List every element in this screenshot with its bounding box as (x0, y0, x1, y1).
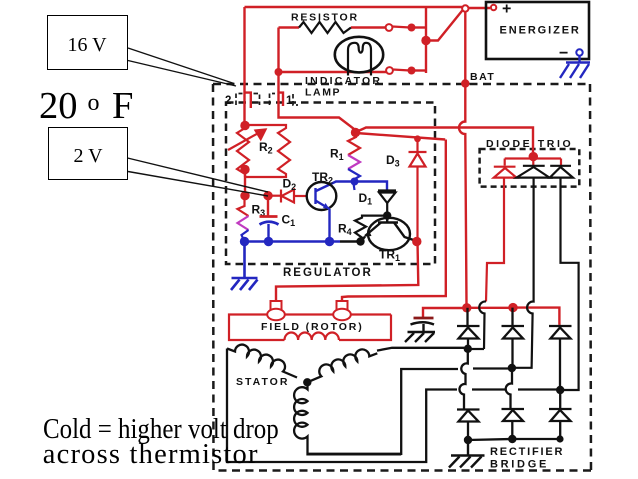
phase wire C (stator left down and to node C) (227, 349, 457, 463)
svg-text:C1: C1 (282, 213, 296, 229)
ground (rectifier bridge) (449, 440, 485, 468)
svg-text:ENERGIZER: ENERGIZER (500, 25, 581, 37)
junction dot bus BAT (462, 303, 471, 312)
resistor R3 (magenta) (238, 196, 249, 242)
junction dot R2 bottom (240, 165, 249, 174)
wire from switch circle to energizer + (469, 7, 491, 9)
phase wire B (stator bottom to node B) (308, 369, 459, 454)
bridge bottom bus (468, 439, 560, 440)
annotation cold text (43, 416, 279, 445)
svg-text:DIODE TRIO: DIODE TRIO (486, 138, 573, 150)
junction dot switch lower (408, 67, 416, 75)
noise capacitor bottom plate + ground (black) (405, 322, 435, 342)
lamp/resistor loop wires (red) (279, 7, 463, 73)
wire R2 bottom to D2 node (red) (244, 170, 246, 197)
wire BAT vertical (red, with hop) (459, 12, 467, 304)
trio left output (red then black, hops bus) (486, 178, 504, 302)
svg-text:D1: D1 (359, 191, 373, 207)
svg-text:+: + (502, 1, 511, 18)
wire left drop from top bus to R2 (red) (243, 7, 245, 125)
switch contact upper (open circle + blade) (386, 24, 393, 31)
node B dot (508, 364, 516, 372)
annotation box 16 V (47, 15, 128, 70)
right brush (red) (337, 301, 348, 311)
diode trio dashed box (480, 149, 580, 187)
junction dot TR2 emitter (325, 237, 334, 246)
svg-text:BRIDGE: BRIDGE (490, 459, 549, 471)
trio diode 3 (black) (550, 166, 573, 178)
svg-text:D2: D2 (283, 177, 297, 193)
junction dot C1 bottom (264, 237, 273, 246)
trio diode 2 (black) (517, 166, 550, 178)
trio right output (black) (560, 178, 578, 390)
transistor TR2 (307, 182, 337, 210)
terminal 2 red pin jog (245, 93, 251, 108)
node C dot (556, 386, 564, 394)
wire red horizontal to diode trio (356, 128, 533, 153)
energizer box (486, 2, 589, 59)
lamp filament (348, 43, 371, 76)
svg-text:R2: R2 (259, 140, 273, 156)
svg-text:R1: R1 (330, 147, 344, 163)
wire top bus (red) (245, 6, 463, 8)
junction dot diode trio (529, 152, 538, 161)
junction dot switch mid (421, 36, 430, 45)
rectifier red bus (467, 307, 514, 309)
junction dot BAT (461, 79, 469, 87)
annotation 20 deg F (39, 87, 133, 126)
wire R3 node down to ground (blue) (243, 242, 246, 278)
bottom bus dots (464, 436, 472, 444)
resistor (ballast) zigzag black (299, 22, 351, 33)
diode trio wiring (red) (505, 157, 561, 166)
regulator dashed box (226, 103, 435, 265)
diode D3 (red) (409, 139, 427, 242)
junction dot D3 top (414, 135, 421, 142)
phase wire A (stator right to node A) (377, 348, 464, 351)
callout lines from 16 V box (128, 48, 236, 86)
terminal 1 red pin (279, 93, 283, 106)
junction dot switch upper (408, 24, 416, 32)
svg-text:R4: R4 (338, 222, 352, 238)
junction dot D1 bottom (383, 211, 391, 219)
diode D1 (black) (378, 191, 396, 216)
terminal 2 connector bracket (dashed) (236, 94, 260, 106)
svg-text:STATOR: STATOR (236, 376, 289, 388)
junction dot TR1 collector (412, 237, 421, 246)
junction dot lamp loop left (275, 68, 283, 76)
transistor TR1 (368, 218, 410, 250)
wire TR1 collector down to left brush (red) (276, 242, 418, 302)
field rotor box (red) (229, 315, 391, 341)
svg-text:LAMP: LAMP (305, 87, 341, 99)
junction dot R3 top (240, 191, 249, 200)
svg-text:1: 1 (286, 95, 293, 107)
svg-text:D3: D3 (386, 153, 400, 169)
indicator lamp (335, 37, 383, 73)
diode D2 (red, pointing left) (268, 190, 307, 203)
ignition switch top terminal (open circle) (462, 5, 468, 11)
trio mid output (black, hops bus) (512, 178, 534, 368)
svg-text:RECTIFIER: RECTIFIER (490, 446, 564, 458)
svg-text:2: 2 (225, 95, 231, 107)
svg-text:FIELD (ROTOR): FIELD (ROTOR) (261, 321, 364, 333)
blue ground bus (245, 240, 341, 243)
junction dot blue bus left (240, 237, 249, 246)
noise capacitor (red lead) (423, 308, 467, 317)
switch contact lower (open circle + blade) (386, 67, 393, 74)
capacitor C1 (260, 196, 279, 242)
energizer + terminal (open circle) (491, 5, 496, 10)
terminal 1 connector bracket (dashed) (270, 94, 299, 106)
junction dot R2 top (240, 121, 249, 130)
ground (energizer, blue) (560, 56, 590, 78)
svg-text:TR2: TR2 (312, 170, 333, 186)
junction dot TR1 emitter (black) (356, 237, 364, 245)
resistor R4 (black) (355, 216, 387, 242)
svg-text:BAT: BAT (470, 71, 495, 83)
junction dot R1 top (351, 128, 360, 137)
ground (regulator, blue) (231, 278, 258, 290)
wire blue R1 bottom to D1 (316, 182, 387, 192)
junction dot bus leg2 (508, 303, 517, 312)
rectifier bridge leg 3 (549, 325, 572, 439)
junction dot C1 top (263, 191, 272, 200)
svg-text:RESISTOR: RESISTOR (291, 12, 359, 24)
rectifier bridge leg 2 (502, 308, 525, 439)
svg-text:REGULATOR: REGULATOR (283, 267, 373, 279)
rectifier bridge leg 1 (457, 308, 480, 440)
outer dashed enclosure (213, 84, 591, 471)
resistor R2 variable (red) (228, 125, 290, 177)
node A dot (464, 345, 472, 353)
callout lines from 2 V box (128, 158, 269, 196)
stator windings (black) (227, 345, 401, 455)
left brush (red) (271, 301, 282, 311)
wire from lamp loop down to terminal 1 (red) (279, 72, 357, 131)
svg-text:−: − (559, 45, 568, 62)
resistor R1 (red/magenta/blue) (348, 133, 360, 191)
trio diode 1 (red) (494, 167, 517, 178)
energizer - terminal (blue circle) (576, 49, 582, 55)
stator center junction dot (303, 378, 311, 386)
svg-text:INDICATOR: INDICATOR (305, 75, 382, 87)
wire right brush riser (red) (342, 140, 446, 302)
annotation box 2 V (48, 127, 128, 180)
wire lower horizontal to brush riser (356, 133, 445, 140)
junction dot R1 bottom (blue) (351, 178, 359, 186)
